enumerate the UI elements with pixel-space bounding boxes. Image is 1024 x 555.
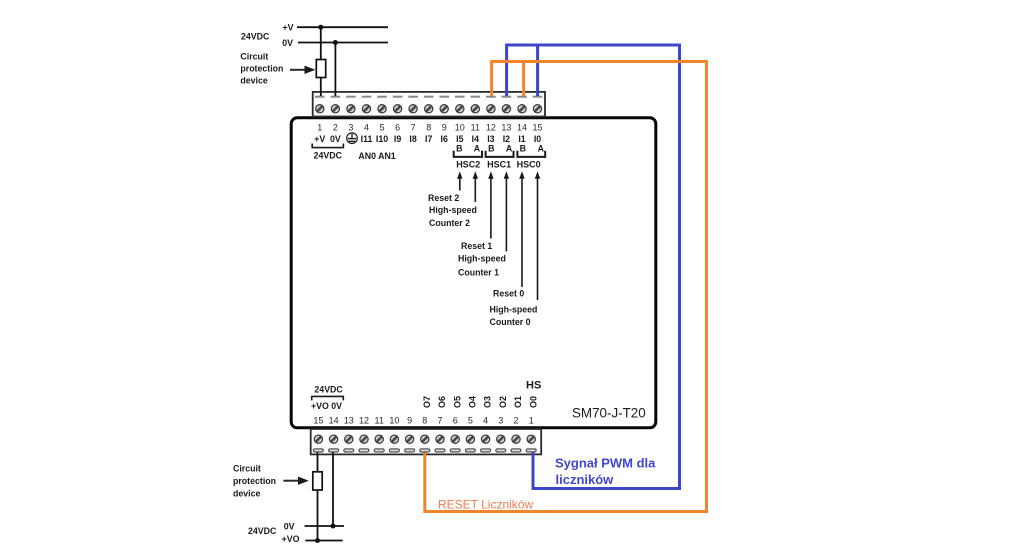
svg-text:I9: I9 [394,134,401,144]
svg-text:2: 2 [513,416,518,426]
svg-text:O6: O6 [437,396,447,408]
svg-text:AN0 AN1: AN0 AN1 [358,151,395,161]
svg-text:O0: O0 [528,396,538,408]
svg-text:14: 14 [517,123,527,133]
output labels O7-O0 (rotated) [422,396,538,408]
PLC controller body U1 SM70-J-T20 [291,118,656,428]
svg-text:+V: +V [314,134,325,144]
label Circuit protection device (top) [240,51,283,85]
arrow pointing to fuse F2 [283,477,309,485]
svg-text:B: B [488,144,494,154]
wire fuse F1 to terminal 1 (+V) [320,78,322,97]
svg-text:SM70-J-T20: SM70-J-T20 [572,406,646,421]
svg-text:15: 15 [532,123,542,133]
svg-text:HSC0: HSC0 [517,160,541,170]
fuse F1 circuit protection device (top) [316,60,325,78]
svg-text:RESET Liczników: RESET Liczników [438,498,533,512]
svg-text:I2: I2 [503,134,510,144]
orange wire branch riser to terminal 14 (I1) [522,61,525,97]
svg-text:protection: protection [233,476,276,486]
svg-text:O3: O3 [483,396,493,408]
top pin numbers 1-15 [317,123,542,133]
svg-text:10: 10 [455,123,465,133]
svg-text:6: 6 [453,416,458,426]
arrow to HSC1 A input (I2) [504,171,509,251]
HSC0 bracket [517,151,545,157]
svg-text:device: device [233,489,260,499]
junction node on 0V rail [333,40,338,45]
svg-text:I8: I8 [409,134,416,144]
arrow to HSC2 A input (I4) [473,171,478,202]
svg-text:4: 4 [364,123,369,133]
svg-text:Reset 2: Reset 2 [428,193,459,203]
svg-text:3: 3 [348,123,353,133]
svg-text:A: A [474,144,481,154]
svg-text:I0: I0 [534,134,541,144]
svg-text:O7: O7 [422,396,432,408]
svg-text:4: 4 [483,416,488,426]
HSC0 B/A phase labels [520,144,545,154]
svg-text:3: 3 [498,416,503,426]
arrow to HSC2 B input (I5) [457,171,462,190]
HSC1 bracket [486,151,514,157]
arrow to HSC1 B input (I3) [488,171,493,238]
orange wire: RESET signal O7 output to HSC reset B inputs (main run) [425,62,707,512]
HSC2 bracket [454,151,482,157]
top pin names +V 0V I11-I0 [314,134,541,144]
svg-text:11: 11 [375,416,384,426]
0V supply rail (top 24VDC) [298,42,388,44]
svg-text:I7: I7 [425,134,432,144]
label Reset 1 / High-speed Counter 1 [458,241,506,278]
svg-text:Reset 0: Reset 0 [493,289,524,299]
svg-text:8: 8 [422,416,427,426]
svg-text:5: 5 [379,123,384,133]
svg-text:O2: O2 [498,396,508,408]
svg-text:9: 9 [442,123,447,133]
svg-text:HS: HS [526,380,541,392]
arrow to HSC0 A input (I0) [535,171,540,300]
svg-text:15: 15 [313,416,323,426]
svg-text:liczników: liczników [556,472,615,487]
svg-text:+V: +V [282,23,293,33]
svg-text:24VDC: 24VDC [314,385,343,395]
svg-text:HSC1: HSC1 [487,160,511,170]
arrow pointing to fuse F1 [290,66,315,74]
svg-text:+VO: +VO [282,534,300,544]
label Sygnal PWM dla licznikow (blue net) [555,455,656,487]
svg-text:B: B [520,144,526,154]
svg-text:6: 6 [395,123,400,133]
svg-text:O4: O4 [468,396,478,408]
wire 0V rail to terminal 2 (0V) [334,43,336,97]
svg-text:1: 1 [529,416,534,426]
wire fuse F2 to +VO rail [317,490,319,541]
HSC2 B/A phase labels [456,144,481,154]
svg-text:device: device [240,76,267,86]
svg-text:B: B [456,144,462,154]
0V supply rail (bottom 24VDC) [305,525,345,527]
svg-text:7: 7 [411,123,416,133]
wire +V rail to fuse F1 [320,27,322,60]
junction node on +VO rail (bottom) [315,538,320,543]
svg-text:I11: I11 [361,134,373,144]
svg-text:0V: 0V [282,38,293,48]
label Reset 2 / High-speed Counter 2 [428,193,477,228]
svg-text:protection: protection [240,64,283,74]
top terminal strip (input terminals 1-15) [313,92,545,117]
label Reset 0 / High-speed Counter 0 [490,289,538,328]
+V supply rail (top 24VDC) [297,26,388,28]
svg-text:13: 13 [501,123,511,133]
svg-text:I4: I4 [472,134,479,144]
bracket pins 15-14 (+VO 0V) [312,396,344,400]
arrow to HSC0 B input (I1) [519,171,525,287]
svg-text:Counter 2: Counter 2 [429,218,470,228]
bottom pin numbers 15-1 [313,416,533,426]
svg-text:High-speed: High-speed [490,305,538,315]
wire terminal 14 (0V) to 0V rail [332,453,334,527]
svg-text:1: 1 [317,123,322,133]
svg-text:24VDC: 24VDC [241,32,270,42]
svg-text:13: 13 [344,416,354,426]
svg-text:Counter 1: Counter 1 [458,268,499,278]
svg-text:0V: 0V [330,134,341,144]
HSC1 B/A phase labels [488,144,513,154]
svg-text:0V: 0V [284,521,295,531]
svg-text:8: 8 [426,123,431,133]
svg-text:24VDC: 24VDC [314,151,343,161]
svg-text:A: A [506,144,513,154]
svg-text:A: A [538,144,545,154]
svg-text:High-speed: High-speed [429,205,477,215]
bottom terminal strip (output terminals 15-1) [311,429,542,454]
wire terminal 15 (+VO) to fuse F2 [317,453,319,473]
junction node on 0V rail (bottom) [331,524,336,529]
svg-text:HSC2: HSC2 [456,160,480,170]
svg-text:+VO 0V: +VO 0V [311,401,342,411]
bracket pins 1-2 (24VDC input) [312,144,343,148]
blue wire branch riser to terminal 15 (I0) [536,44,539,96]
svg-text:I1: I1 [518,134,525,144]
svg-text:12: 12 [486,123,496,133]
label Circuit protection device (bottom) [233,464,276,499]
svg-text:Circuit: Circuit [233,464,261,474]
svg-text:High-speed: High-speed [458,254,506,264]
svg-text:Sygnał PWM dla: Sygnał PWM dla [555,455,656,470]
svg-text:2: 2 [333,123,338,133]
svg-text:9: 9 [407,416,412,426]
svg-text:I10: I10 [376,134,388,144]
svg-text:I3: I3 [487,134,494,144]
+VO supply rail (bottom 24VDC) [305,540,342,542]
svg-text:24VDC: 24VDC [248,526,277,536]
svg-text:10: 10 [389,416,399,426]
svg-text:11: 11 [471,123,480,133]
svg-text:O5: O5 [452,396,462,408]
svg-text:14: 14 [329,416,339,426]
protective earth symbol (pin 3) [347,133,358,144]
svg-text:Circuit: Circuit [240,51,268,61]
svg-text:Counter 0: Counter 0 [490,317,531,327]
svg-text:5: 5 [468,416,473,426]
svg-text:7: 7 [437,416,442,426]
svg-text:Reset 1: Reset 1 [461,241,492,251]
svg-text:I5: I5 [456,134,463,144]
junction node on +V rail [318,25,323,30]
svg-text:I6: I6 [441,134,448,144]
svg-text:12: 12 [359,416,369,426]
fuse F2 circuit protection device (bottom) [313,472,322,490]
blue wire: PWM signal O0 output to HSC counter A inputs (main run) [507,45,680,489]
svg-text:O1: O1 [513,396,523,408]
